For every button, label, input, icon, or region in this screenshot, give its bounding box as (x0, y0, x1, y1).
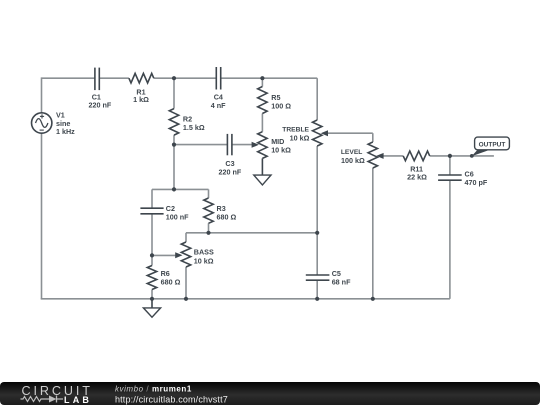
resistor R6 (147, 266, 156, 290)
label C5 (332, 269, 351, 286)
label LEVEL (341, 149, 365, 165)
node B junction (172, 143, 176, 147)
svg-text:BASS: BASS (194, 248, 214, 257)
capacitor C5 (306, 275, 330, 280)
wire (384, 155, 404, 157)
svg-text:10 kΩ: 10 kΩ (194, 256, 214, 265)
svg-text:10 kΩ: 10 kΩ (271, 146, 291, 155)
wire (372, 168, 374, 299)
label R5 (271, 93, 291, 111)
node junction (260, 76, 264, 80)
wire (261, 114, 263, 132)
wire (449, 156, 451, 175)
voltage source V1 (32, 113, 52, 133)
wire (232, 144, 252, 146)
label OUTPUT (479, 141, 506, 148)
svg-text:1.5 kΩ: 1.5 kΩ (183, 123, 205, 132)
potentiometer TREBLE (313, 120, 329, 146)
node junction (172, 187, 176, 191)
capacitor C2 (140, 208, 163, 214)
ground (254, 158, 271, 185)
svg-text:68 nF: 68 nF (332, 278, 351, 287)
wire (151, 290, 153, 299)
wire (186, 232, 317, 234)
wire (173, 78, 175, 108)
output flag OUTPUT (470, 137, 510, 158)
label V1 (56, 111, 75, 137)
wire (316, 280, 318, 299)
label MID (271, 137, 291, 155)
svg-text:100 Ω: 100 Ω (271, 102, 291, 111)
node junction (150, 253, 154, 257)
svg-text:R5: R5 (271, 93, 280, 102)
wire (174, 144, 227, 146)
node junction (448, 154, 452, 158)
resistor R3 (204, 198, 213, 223)
wire (261, 78, 263, 86)
capacitor C4 (216, 67, 220, 90)
label R3 (217, 204, 237, 221)
label R11 (407, 165, 427, 182)
capacitor C1 (95, 68, 99, 91)
svg-text:kvimbo / mrumen1: kvimbo / mrumen1 (115, 385, 192, 394)
wire (41, 133, 43, 299)
resistor R2 (169, 109, 178, 136)
svg-text:MID: MID (271, 137, 284, 146)
wire (42, 77, 95, 79)
label R2 (183, 114, 205, 131)
wire (208, 223, 210, 233)
label C4 (211, 92, 226, 110)
wire (430, 155, 494, 157)
wire (151, 214, 153, 256)
ground (143, 299, 160, 317)
svg-text:10 kΩ: 10 kΩ (290, 134, 310, 143)
node A junction (172, 76, 176, 80)
svg-text:680 Ω: 680 Ω (161, 278, 181, 287)
wire (328, 132, 373, 134)
svg-text:1 kΩ: 1 kΩ (133, 95, 149, 104)
svg-text:100 nF: 100 nF (166, 212, 189, 221)
node junction (150, 297, 154, 301)
wire (208, 189, 210, 198)
svg-text:470 pF: 470 pF (465, 178, 488, 187)
node junction (371, 297, 375, 301)
wire (152, 254, 176, 256)
wire (152, 188, 209, 190)
svg-text:220 nF: 220 nF (219, 167, 242, 176)
node junction (184, 297, 188, 301)
label C3 (219, 159, 242, 176)
label R6 (161, 269, 181, 287)
label BASS (194, 248, 214, 266)
svg-text:1 kHz: 1 kHz (56, 127, 75, 136)
wire (151, 189, 153, 208)
resistor R11 (403, 151, 430, 161)
svg-text:LAB: LAB (64, 395, 92, 405)
wire (372, 133, 374, 142)
wire (316, 78, 318, 120)
wire (151, 255, 153, 265)
potentiometer BASS (175, 242, 191, 267)
svg-text:OUTPUT: OUTPUT (479, 141, 506, 148)
label C2 (166, 204, 189, 221)
label TREBLE (282, 127, 309, 143)
resistor R1 (129, 73, 154, 83)
svg-text:22 kΩ: 22 kΩ (407, 173, 427, 182)
node junction (315, 297, 319, 301)
svg-text:220 nF: 220 nF (89, 101, 112, 110)
wire (221, 77, 317, 79)
svg-text:680 Ω: 680 Ω (217, 213, 237, 222)
resistor R5 (258, 87, 267, 114)
capacitor C6 (438, 175, 462, 180)
label C6 (465, 170, 488, 188)
svg-text:4 nF: 4 nF (211, 101, 226, 110)
wire (100, 77, 129, 79)
node junction (315, 231, 319, 235)
capacitor C3 (227, 134, 232, 155)
wire (41, 298, 450, 300)
wire (173, 135, 175, 189)
wire (185, 267, 187, 299)
wire (41, 77, 43, 113)
potentiometer LEVEL (368, 142, 384, 168)
svg-text:100 kΩ: 100 kΩ (341, 156, 365, 165)
svg-text:http://circuitlab.com/chvstt7: http://circuitlab.com/chvstt7 (115, 394, 228, 404)
wire (185, 233, 187, 242)
potentiometer MID (252, 132, 268, 159)
label R1 (133, 87, 149, 103)
svg-text:TREBLE: TREBLE (282, 127, 309, 134)
wire (449, 180, 451, 299)
label C1 (89, 92, 112, 109)
wire (154, 77, 216, 79)
wire (316, 146, 318, 275)
node junction (206, 231, 210, 235)
